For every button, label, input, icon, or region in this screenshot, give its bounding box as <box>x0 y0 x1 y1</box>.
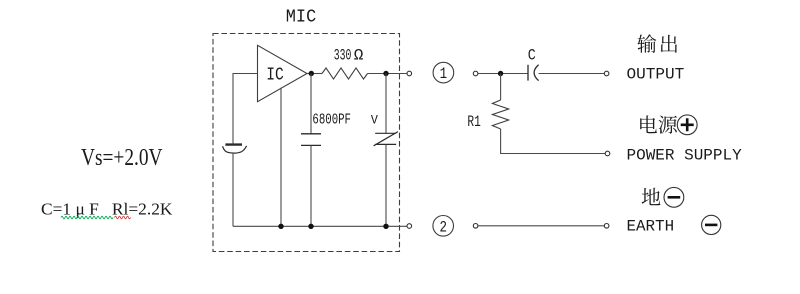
capacitor 6800PF branch wire lower <box>310 145 312 226</box>
terminal: MIC ground pin <box>407 224 412 229</box>
label shuchu (Chinese: output) <box>637 34 677 53</box>
label dianyuan (Chinese: power) <box>640 115 677 133</box>
svg-text:MIC: MIC <box>286 7 317 27</box>
svg-text:IC: IC <box>266 66 284 86</box>
wire: op-amp output to resistor <box>307 73 322 75</box>
svg-text:OUTPUT: OUTPUT <box>627 66 685 84</box>
svg-text:EARTH: EARTH <box>627 217 675 235</box>
svg-text:C: C <box>528 46 536 64</box>
resistor 330ohm zigzag <box>322 68 368 79</box>
svg-text:2: 2 <box>439 218 447 236</box>
label di (Chinese: earth) <box>642 188 661 206</box>
op-amp U1 (IC buffer triangle) <box>258 45 308 101</box>
terminal: OUTPUT <box>604 71 609 76</box>
node: ground leg junction <box>278 224 283 229</box>
terminal: output line start <box>473 71 478 76</box>
wire: capacitor C to output terminal <box>539 73 605 75</box>
capacitor C (left plate) <box>527 65 529 81</box>
svg-text:6800PF: 6800PF <box>312 112 351 129</box>
symbol circled minus (after di) <box>664 187 684 207</box>
capacitor 6800PF plates <box>301 134 321 146</box>
pin number 1 <box>433 62 454 83</box>
terminal: earth line start <box>473 224 478 229</box>
wire: capsule to bottom rail <box>232 153 234 226</box>
MIC module dashed enclosure <box>213 34 400 252</box>
microphone capsule MK1 (curved plate) <box>223 146 247 153</box>
node: output junction <box>309 71 314 76</box>
resistor R1 zigzag <box>492 100 508 129</box>
capacitor 6800PF branch wire upper <box>310 74 312 134</box>
wire: op-amp input left <box>233 73 258 75</box>
node: V branch junction <box>383 224 388 229</box>
wire: resistor to box edge terminal <box>368 73 407 75</box>
wire: op-amp ground leg <box>280 88 282 227</box>
svg-text:R1: R1 <box>467 113 480 131</box>
microphone capsule MK1 (top plate) <box>225 143 242 145</box>
symbol circled plus <box>677 115 697 135</box>
terminal: EARTH <box>604 224 609 229</box>
svg-text:1: 1 <box>440 65 448 83</box>
node: 6800PF junction <box>308 224 313 229</box>
svg-text:POWER SUPPLY: POWER SUPPLY <box>627 146 743 164</box>
svg-text:C=1 μ F Rl=2.2K: C=1 μ F Rl=2.2K <box>41 199 173 218</box>
symbol circled minus (after EARTH) <box>702 215 721 234</box>
varactor V symbol <box>374 132 398 146</box>
svg-text:330: 330 <box>334 46 352 64</box>
varactor V branch wire upper <box>385 74 387 134</box>
bottom rail wire <box>233 225 407 227</box>
pin number 2 <box>433 216 454 237</box>
capacitor C (curved plate) <box>534 65 539 81</box>
terminal: POWER SUPPLY <box>605 151 610 156</box>
node: R1 junction <box>498 71 503 76</box>
terminal: MIC output pin <box>407 71 412 76</box>
svg-text:Ω: Ω <box>354 46 364 64</box>
spellcheck wavy underline red <box>115 216 131 219</box>
resistor R1 wire lower + to POWER SUPPLY terminal <box>501 129 606 154</box>
varactor V branch wire lower <box>385 144 387 226</box>
resistor R1 wire upper <box>500 74 502 101</box>
svg-text:Vs=+2.0V: Vs=+2.0V <box>81 145 163 171</box>
spellcheck wavy underline green <box>61 216 113 219</box>
wire: to capacitor C <box>478 73 528 75</box>
node: junction at V branch <box>383 71 388 76</box>
wire: earth line <box>478 225 604 227</box>
wire: down to microphone capsule <box>232 73 234 143</box>
svg-text:V: V <box>371 113 378 127</box>
